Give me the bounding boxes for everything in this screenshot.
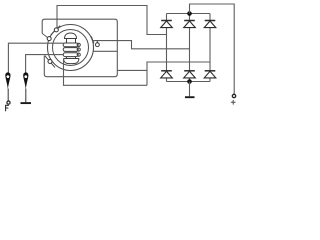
wire phase3 to rectifier leg2: [93, 41, 190, 49]
wire phase1 from terminal A to rectifier leg1: [57, 6, 167, 35]
diode D3 top leg3: [204, 21, 216, 28]
rectifier leg3 wire segments: [209, 14, 211, 82]
field coil core stem right upper: [75, 39, 77, 44]
field coil loop 3 end turn: [77, 53, 80, 56]
brush tangent at terminal C: [45, 55, 55, 67]
diode D2 top leg2: [184, 21, 196, 28]
junction dot bottom bus: [187, 79, 192, 84]
stator frame box: [42, 19, 117, 76]
rectifier bottom bus: [167, 81, 211, 83]
field coil loop 3: [63, 53, 78, 57]
wire stub frame to terminal B: [42, 33, 47, 37]
terminal C: [48, 60, 52, 64]
wire brush F lead: [7, 89, 9, 102]
terminal F circle: [7, 101, 10, 104]
ground bar brush E: [21, 102, 32, 104]
label plus: [231, 100, 236, 105]
wire phase2 from coil bottom down and right: [64, 59, 148, 86]
wire field F from brush riser to coil: [8, 43, 63, 73]
terminal D stub: [96, 41, 98, 43]
ground bar bridge: [185, 96, 195, 98]
brush tangent at terminal A: [51, 26, 60, 35]
field coil loop 1 end turn: [77, 43, 80, 46]
brush E (right): [23, 72, 28, 89]
field coil core stem right lower: [75, 57, 77, 59]
field coil loop 2 end turn: [77, 48, 80, 51]
wire frame to riser: [117, 69, 147, 71]
diode D1 top leg1: [161, 21, 173, 28]
field coil core stem left upper: [66, 39, 68, 44]
brush F (left): [5, 72, 10, 89]
wire bridge ground stub: [189, 82, 191, 97]
field coil loop 2: [63, 48, 78, 52]
wire field ground from brush to coil: [26, 55, 64, 73]
diode D4 bottom leg1: [161, 71, 173, 78]
diode D5 bottom leg2: [184, 71, 196, 78]
terminal B+ circle: [232, 94, 235, 97]
wire neutral from stator to frame: [93, 50, 117, 52]
wire phase2 riser: [147, 62, 210, 85]
alternator inner circle: [53, 30, 89, 66]
junction dot top bus: [187, 11, 192, 16]
wire B+ output: [190, 4, 235, 94]
field coil loop 1: [63, 43, 78, 47]
terminal B: [47, 37, 51, 41]
field coil top dome: [65, 33, 77, 39]
field coil bottom cap: [64, 59, 80, 64]
rectifier leg1 wire segments: [166, 14, 168, 82]
terminal A: [54, 28, 58, 32]
wire brush E lead: [25, 89, 27, 103]
brush tangent at terminal D: [91, 36, 94, 43]
rectifier top bus: [167, 13, 211, 15]
rectifier leg2 wire segments: [189, 14, 191, 82]
terminal D: [96, 43, 100, 47]
diode D6 bottom leg3: [204, 71, 216, 78]
alternator outer circle: [48, 25, 94, 71]
field coil core stem left lower: [66, 57, 68, 59]
label F: [6, 105, 9, 111]
